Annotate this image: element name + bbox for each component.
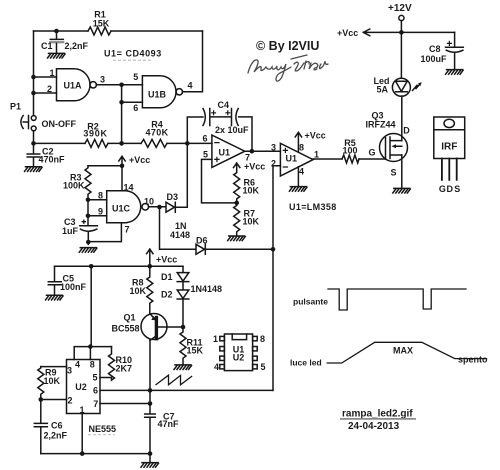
capacitor C3 electrolytic <box>80 226 98 242</box>
wire to NE555 top <box>90 266 92 346</box>
label C3 <box>62 217 86 236</box>
wire feedback vertical <box>183 31 203 92</box>
label R2 <box>83 122 107 139</box>
label pulsante <box>293 297 328 307</box>
label R1 <box>93 10 110 29</box>
svg-text:470nF: 470nF <box>39 155 66 165</box>
ground under R11 <box>174 365 192 370</box>
svg-text:5: 5 <box>92 373 97 383</box>
package DIP8 <box>220 334 257 371</box>
svg-text:Q1: Q1 <box>124 313 136 323</box>
label spento <box>458 355 488 365</box>
wire opamp1 output <box>245 150 281 152</box>
svg-text:47nF: 47nF <box>158 419 180 429</box>
wire C4 left branch <box>187 117 203 143</box>
wire 555 pin1 <box>81 414 83 454</box>
svg-text:ON-OFF: ON-OFF <box>42 119 77 129</box>
svg-text:U1= CD4093: U1= CD4093 <box>104 49 162 59</box>
label C2 <box>39 147 66 165</box>
svg-text:NE555: NE555 <box>89 424 117 434</box>
capacitor C7 <box>145 390 156 453</box>
label pin14 <box>124 183 134 193</box>
svg-text:10K: 10K <box>243 217 260 227</box>
svg-text:U1=LM358: U1=LM358 <box>289 202 337 212</box>
svg-text:D: D <box>447 184 454 194</box>
sawtooth waveform symbol <box>156 375 192 385</box>
resistor R7 <box>234 203 240 236</box>
resistor R8 <box>147 266 153 314</box>
label Vcc opamp2 <box>305 131 326 141</box>
node U1A out junction <box>119 83 124 88</box>
label 1N4148 for D3 <box>170 221 190 240</box>
svg-text:100uF: 100uF <box>421 54 448 64</box>
svg-text:8: 8 <box>98 191 103 201</box>
ground under C5 <box>46 295 64 300</box>
node pin6 junction <box>148 388 153 393</box>
svg-text:2,2nF: 2,2nF <box>65 41 89 51</box>
svg-text:2: 2 <box>47 84 52 94</box>
label R11 <box>187 338 204 356</box>
label opamp2 pins <box>271 143 319 177</box>
gate U1B <box>142 76 182 108</box>
svg-text:+Vcc: +Vcc <box>129 155 150 165</box>
svg-text:C1: C1 <box>41 41 53 51</box>
node R9 C6 junction <box>39 397 44 402</box>
svg-text:spento: spento <box>458 355 488 365</box>
label U1 LM358 <box>289 202 337 212</box>
LED 5A <box>392 78 421 96</box>
node R3 pin8 junction <box>86 198 91 203</box>
capacitor C8 electrolytic <box>446 32 464 69</box>
capacitor C1 <box>50 31 63 53</box>
package TO220 IRF <box>434 117 465 180</box>
ground under C3 <box>79 248 97 253</box>
svg-text:C8: C8 <box>429 44 441 54</box>
ground bottom <box>141 463 159 468</box>
power +Vcc arrow at opamp2 <box>295 132 301 151</box>
svg-text:10K: 10K <box>44 376 61 386</box>
label U2 pins <box>67 360 98 416</box>
wire U1C pin8 <box>88 199 107 201</box>
wire U1A output to U1B pin5 <box>96 84 142 86</box>
wire NE555 top node <box>74 347 111 360</box>
resistor R4 <box>141 139 167 147</box>
label R9 <box>44 368 61 387</box>
label GDS <box>439 184 460 194</box>
svg-text:4: 4 <box>187 81 192 91</box>
node pin2 junction <box>31 91 36 96</box>
label Vcc top <box>337 28 358 38</box>
svg-text:2,2nF: 2,2nF <box>44 431 68 441</box>
diode D1 <box>177 273 189 282</box>
label C4 <box>218 100 230 110</box>
label D3 <box>167 192 179 202</box>
svg-text:+Vcc: +Vcc <box>244 162 265 172</box>
svg-text:1: 1 <box>79 405 84 415</box>
node R8 Vcc junction <box>148 264 153 269</box>
wire LED anode <box>400 32 402 78</box>
label C6 <box>44 421 68 441</box>
ground under C8 <box>446 70 464 75</box>
node D6 junction <box>271 247 276 252</box>
svg-text:U1A: U1A <box>63 81 82 91</box>
wire 555 pin2 <box>41 399 67 401</box>
svg-text:P1: P1 <box>10 102 21 112</box>
ground under R7 <box>228 236 246 241</box>
node C1 junction <box>54 29 59 34</box>
svg-text:S: S <box>390 168 396 178</box>
wire Vcc top rail <box>363 29 454 36</box>
wire C5 R8 D1 row <box>55 265 184 267</box>
wire U1C pin14 stem <box>121 166 123 191</box>
label R6 <box>243 178 260 196</box>
waveform pulsante <box>328 289 466 310</box>
label +12V <box>388 3 412 14</box>
node R4 C4 D3 junction <box>185 141 190 146</box>
resistor R2 <box>85 139 108 147</box>
svg-text:G: G <box>368 148 375 158</box>
node C5vert junction <box>89 264 94 269</box>
label Q1 <box>112 313 140 334</box>
svg-text:S: S <box>454 184 460 194</box>
node C3 junction <box>86 240 91 245</box>
wire Q3 source to ground <box>401 155 403 188</box>
diode D2 <box>177 290 189 299</box>
label MAX <box>393 346 413 356</box>
resistor R5 <box>342 155 359 163</box>
node 555 pin8 junction <box>88 344 93 349</box>
svg-text:1N4148: 1N4148 <box>191 284 223 294</box>
svg-text:4: 4 <box>75 360 80 370</box>
svg-text:U1C: U1C <box>112 204 131 214</box>
wire top rail <box>34 30 203 32</box>
wire bottom rail <box>41 453 150 455</box>
wire D1 stem <box>182 266 184 272</box>
svg-text:470K: 470K <box>145 128 168 138</box>
svg-text:6: 6 <box>133 103 138 113</box>
svg-text:D6: D6 <box>196 236 208 246</box>
wire C3 pin7 row <box>88 223 121 245</box>
svg-text:15K: 15K <box>187 346 204 356</box>
node pin6 junction <box>119 100 124 105</box>
label Q3 <box>366 111 396 130</box>
resistor R11 <box>180 327 186 365</box>
label C1 <box>41 41 89 51</box>
svg-text:5: 5 <box>133 72 138 82</box>
label C5 <box>60 274 87 293</box>
label S <box>390 168 396 178</box>
label U1A pins <box>47 68 105 94</box>
capacitor C6 <box>34 400 47 454</box>
ground under C2 <box>25 167 43 172</box>
label C8 <box>421 44 448 64</box>
wire Q1 collector <box>149 340 151 390</box>
svg-text:6: 6 <box>93 386 98 396</box>
label opamp1 pins <box>202 134 250 163</box>
node R6 R7 junction <box>234 201 239 206</box>
label Led 5A <box>374 76 390 95</box>
wire opamp1 pin5 feedback <box>202 159 237 203</box>
svg-text:3: 3 <box>271 143 276 153</box>
svg-text:100: 100 <box>342 146 357 156</box>
transistor Q3 MOSFET <box>380 134 408 162</box>
svg-text:100K: 100K <box>63 181 85 191</box>
label DIP8 pins <box>213 334 266 372</box>
svg-text:C4: C4 <box>218 100 230 110</box>
svg-text:D1: D1 <box>161 272 173 282</box>
label P1 <box>10 102 21 112</box>
svg-text:U1: U1 <box>219 148 231 158</box>
label D2 <box>161 290 173 300</box>
svg-text:U1: U1 <box>286 154 298 164</box>
op-amp U1 second <box>280 143 313 176</box>
pushbutton P1 <box>21 116 36 131</box>
gate U1A <box>57 69 97 101</box>
label R3 <box>63 173 85 191</box>
svg-text:IRFZ44: IRFZ44 <box>366 120 396 130</box>
label title <box>340 409 416 433</box>
wire 555 pin6 row <box>100 389 273 391</box>
label R8 <box>130 278 147 297</box>
svg-text:D2: D2 <box>161 290 173 300</box>
wire opamp2 pin2 <box>273 166 280 391</box>
node Vcc pin14 junction <box>120 164 125 169</box>
svg-text:390K: 390K <box>83 129 107 139</box>
label R10 <box>116 355 133 374</box>
diode D3 <box>166 202 175 212</box>
label R4 <box>145 120 168 138</box>
node R2R4 junction <box>119 141 124 146</box>
label IRF <box>441 142 457 153</box>
label D <box>403 126 410 136</box>
wire U1A pin1 <box>34 76 57 78</box>
power +Vcc arrow at U1C pin14 <box>119 156 125 166</box>
svg-text:2: 2 <box>67 396 72 406</box>
svg-text:2K7: 2K7 <box>116 364 133 374</box>
wire U1C output <box>149 206 166 208</box>
svg-text:3: 3 <box>100 75 105 85</box>
svg-text:IRF: IRF <box>441 142 457 153</box>
resistor R1 <box>88 27 111 35</box>
svg-text:1: 1 <box>49 68 54 78</box>
svg-text:7: 7 <box>93 399 98 409</box>
node pin9 junction <box>86 214 91 219</box>
svg-text:BC558: BC558 <box>112 324 140 334</box>
label D6 <box>196 236 208 246</box>
label luce led <box>290 358 322 368</box>
wire ground stem bottom <box>149 454 151 463</box>
svg-text:10K: 10K <box>243 186 260 196</box>
IC U2 NE555 body <box>67 360 101 414</box>
svg-text:+Vcc: +Vcc <box>337 28 358 38</box>
svg-text:4: 4 <box>214 362 219 372</box>
capacitor C4 double electrolytic <box>203 109 238 126</box>
svg-text:D3: D3 <box>167 192 179 202</box>
svg-text:© By I2VIU: © By I2VIU <box>256 39 319 53</box>
wire U1B pin6 <box>122 101 143 103</box>
wire opamp2 output <box>313 158 385 160</box>
wire 555 pin7 row <box>100 403 150 405</box>
wire main horizontal RC row <box>34 142 212 144</box>
label C7 <box>158 412 180 430</box>
wire D1 D2 link <box>182 282 184 290</box>
label Vcc R6 <box>244 162 265 172</box>
svg-text:5: 5 <box>203 150 208 160</box>
svg-text:+Vcc: +Vcc <box>156 255 177 265</box>
signature <box>248 55 328 81</box>
node pin1 junction <box>31 75 36 80</box>
svg-text:luce led: luce led <box>290 358 322 368</box>
svg-text:U1B: U1B <box>148 90 167 100</box>
label G <box>368 148 375 158</box>
label U1 CD4093 <box>104 49 162 61</box>
capacitor C5 <box>48 266 61 295</box>
svg-text:2x 10uF: 2x 10uF <box>215 125 249 135</box>
label D1 <box>161 272 173 282</box>
svg-text:9: 9 <box>98 207 103 217</box>
svg-text:4148: 4148 <box>170 230 190 240</box>
svg-text:2: 2 <box>271 159 276 169</box>
resistor R6 <box>234 171 240 203</box>
label 1N4148 for D1 D2 <box>191 284 223 294</box>
node opamp1 out junction <box>250 149 255 154</box>
svg-text:pulsante: pulsante <box>293 297 328 307</box>
label U1B pins <box>133 72 192 113</box>
svg-text:U2: U2 <box>233 353 245 363</box>
label U1C pins <box>98 191 154 235</box>
node D3 anode junction <box>157 205 162 210</box>
svg-text:3: 3 <box>67 366 72 376</box>
node bottom ground junction <box>148 451 153 456</box>
wire pin9 to C3 <box>87 200 89 225</box>
waveform luce led <box>327 342 486 363</box>
svg-text:1: 1 <box>314 150 319 160</box>
svg-text:1uF: 1uF <box>62 226 79 236</box>
ground under C1 <box>48 53 66 58</box>
svg-text:15K: 15K <box>93 19 110 29</box>
power +Vcc arrow at R8 <box>147 249 153 266</box>
svg-text:10K: 10K <box>130 286 147 296</box>
label Vcc pin14 <box>129 155 150 165</box>
svg-text:100nF: 100nF <box>60 282 87 292</box>
svg-text:4: 4 <box>299 167 304 177</box>
label copyright <box>256 39 319 53</box>
capacitor C2 <box>27 143 40 166</box>
node Q1 base junction <box>181 325 186 330</box>
wire U1A pin2 <box>34 92 57 94</box>
label 2x10uF <box>215 125 249 135</box>
svg-text:8: 8 <box>299 143 304 153</box>
power +Vcc arrow at R6 <box>234 163 240 171</box>
resistor R3 <box>85 166 91 200</box>
wire Q3 drain <box>401 96 403 141</box>
diode D6 <box>196 244 205 254</box>
wire left rail <box>33 31 35 143</box>
ground under Q3 <box>393 188 411 193</box>
transistor Q1 BC558 <box>141 314 183 341</box>
svg-text:8: 8 <box>90 360 95 370</box>
ground under opamp2 <box>289 187 307 192</box>
svg-text:+Vcc: +Vcc <box>305 131 326 141</box>
svg-text:U2: U2 <box>75 382 87 392</box>
svg-text:D: D <box>403 126 410 136</box>
wire U1C pin9 <box>88 215 107 217</box>
svg-text:7: 7 <box>124 225 129 235</box>
label ON-OFF <box>42 119 77 129</box>
svg-text:+12V: +12V <box>388 3 412 14</box>
terminal +12V <box>399 15 404 32</box>
node pin1 bottom junction <box>80 451 85 456</box>
wire D6 cathode to comparator node <box>205 248 273 250</box>
wire C4 right branch <box>239 117 252 151</box>
gate U1C <box>107 191 149 223</box>
label R7 <box>243 209 260 227</box>
svg-text:14: 14 <box>124 183 134 193</box>
svg-text:5A: 5A <box>377 85 389 95</box>
label R5 <box>342 138 357 156</box>
op-amp U1 first <box>212 135 245 167</box>
svg-text:C6: C6 <box>51 421 63 431</box>
svg-text:8: 8 <box>260 334 265 344</box>
svg-text:5: 5 <box>260 362 265 372</box>
wire D3 node down to D6 <box>160 207 197 249</box>
node C2 junction <box>31 141 36 146</box>
svg-text:6: 6 <box>202 134 207 144</box>
resistor R9 <box>38 367 44 400</box>
label NE555 <box>88 424 116 435</box>
node pin7 junction <box>148 401 153 406</box>
svg-text:rampa_led2.gif: rampa_led2.gif <box>342 409 413 420</box>
svg-text:24-04-2013: 24-04-2013 <box>348 421 400 432</box>
svg-text:G: G <box>439 184 446 194</box>
wire 555 pin3 <box>41 366 67 368</box>
wire opamp2 pin4 ground stem <box>297 167 299 187</box>
wire D3 cathode to ramp node <box>175 143 187 207</box>
label Vcc R8 <box>156 255 177 265</box>
svg-text:MAX: MAX <box>393 346 413 356</box>
wire D2 to base node <box>182 299 184 327</box>
wire R3 to Vcc node <box>88 165 122 167</box>
node 12V junction <box>399 30 404 35</box>
resistor R10 <box>100 347 115 381</box>
svg-text:10: 10 <box>144 197 154 207</box>
wire vertical to R2R4 node <box>121 85 123 144</box>
svg-text:1: 1 <box>213 334 218 344</box>
